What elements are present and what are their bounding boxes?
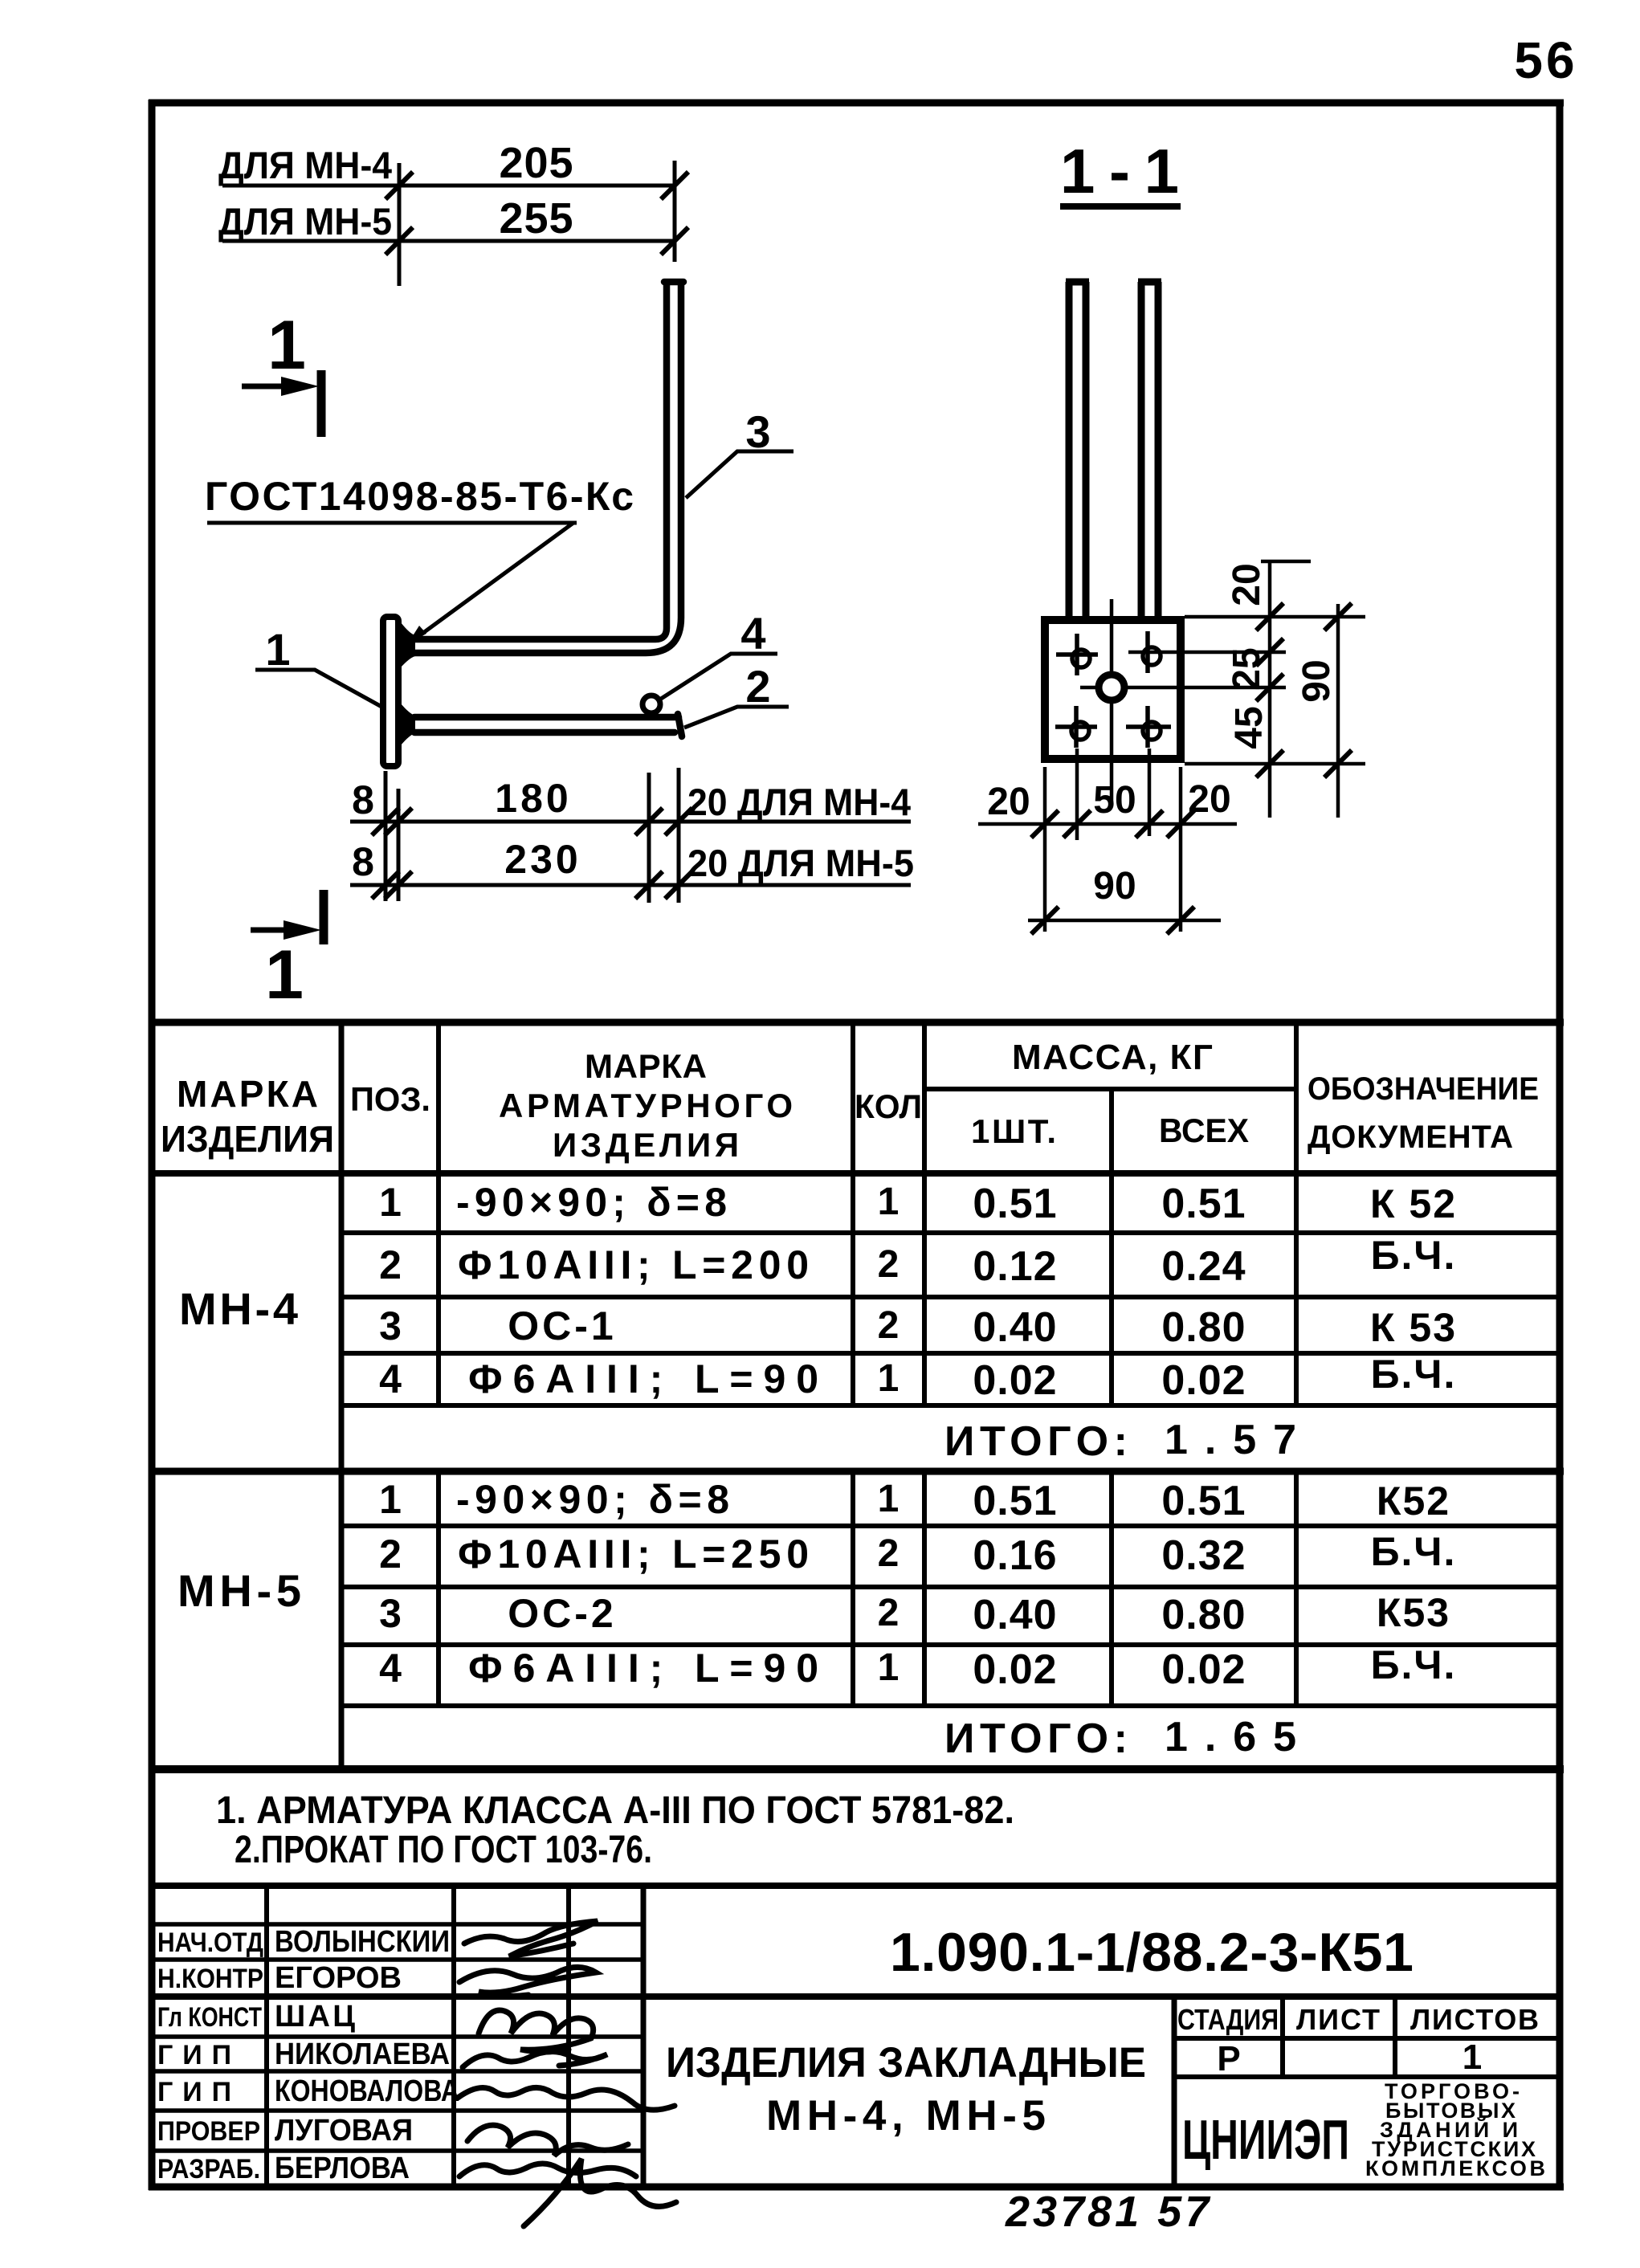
svg-text:ГИП: ГИП (157, 2077, 231, 2107)
svg-text:50: 50 (1093, 779, 1136, 822)
svg-text:180: 180 (495, 776, 571, 821)
svg-text:КОЛ: КОЛ (855, 1087, 922, 1125)
svg-text:0.40: 0.40 (973, 1592, 1057, 1638)
svg-text:ПРОВЕР: ПРОВЕР (157, 2116, 260, 2147)
svg-text:МН-5: МН-5 (177, 1565, 301, 1616)
svg-text:255: 255 (499, 194, 573, 243)
weld cross bottom-right (1126, 706, 1171, 748)
svg-text:-90×90; δ=8: -90×90; δ=8 (456, 1180, 727, 1225)
svg-text:1: 1 (878, 1181, 900, 1223)
svg-text:2: 2 (379, 1242, 402, 1287)
plate vertical centerline (1110, 599, 1114, 803)
svg-text:ИТОГО:: ИТОГО: (944, 1418, 1128, 1465)
svg-text:90: 90 (1295, 659, 1338, 702)
svg-text:1. АРМАТУРА КЛАССА А-III ПО ГО: 1. АРМАТУРА КЛАССА А-III ПО ГОСТ 5781-82… (216, 1789, 1014, 1832)
svg-text:56: 56 (1514, 31, 1577, 89)
svg-text:Б.Ч.: Б.Ч. (1371, 1529, 1457, 1574)
svg-text:ДЛЯ МН-5: ДЛЯ МН-5 (218, 200, 392, 243)
svg-text:20 ДЛЯ МН-5: 20 ДЛЯ МН-5 (687, 842, 914, 884)
svg-text:Б.Ч.: Б.Ч. (1371, 1233, 1457, 1278)
svg-text:2: 2 (745, 661, 770, 712)
dim ticks row1/row2 (372, 808, 399, 835)
svg-text:1: 1 (265, 624, 290, 675)
svg-text:ПОЗ.: ПОЗ. (350, 1080, 430, 1118)
svg-text:20 ДЛЯ МН-4: 20 ДЛЯ МН-4 (687, 781, 911, 823)
section: left bar (1066, 282, 1089, 618)
svg-text:20: 20 (987, 781, 1030, 823)
svg-text:230: 230 (504, 837, 581, 882)
svg-text:0.51: 0.51 (1161, 1478, 1246, 1524)
svg-text:0.40: 0.40 (973, 1304, 1057, 1351)
svg-text:МН-4: МН-4 (179, 1283, 298, 1334)
svg-text:К 53: К 53 (1370, 1305, 1457, 1350)
svg-text:20: 20 (1226, 563, 1268, 606)
svg-text:8: 8 (352, 777, 374, 822)
svg-text:2: 2 (878, 1592, 900, 1634)
svg-text:БЕРЛОВА: БЕРЛОВА (275, 2152, 410, 2185)
svg-text:ОС-2: ОС-2 (508, 1591, 616, 1636)
bottom dim ticks (1031, 810, 1059, 838)
svg-text:4: 4 (740, 608, 765, 659)
svg-text:0.51: 0.51 (1161, 1181, 1246, 1227)
svg-text:Р: Р (1217, 2039, 1240, 2078)
svg-text:Н.КОНТР: Н.КОНТР (157, 1964, 263, 1994)
svg-text:ОС-1: ОС-1 (508, 1303, 616, 1348)
svg-text:1: 1 (878, 1357, 900, 1400)
svg-text:Гл КОНСТ: Гл КОНСТ (157, 2002, 262, 2033)
dim ticks (386, 172, 413, 199)
svg-text:4: 4 (379, 1646, 402, 1691)
dim line 205 (222, 184, 675, 188)
svg-text:ЛУГОВАЯ: ЛУГОВАЯ (275, 2114, 413, 2148)
svg-text:ИЗДЕЛИЯ: ИЗДЕЛИЯ (553, 1126, 739, 1164)
svg-text:20: 20 (1188, 778, 1230, 821)
extension lines below front view (350, 768, 911, 903)
svg-text:3: 3 (379, 1591, 402, 1636)
svg-text:МАРКА: МАРКА (585, 1047, 707, 1085)
svg-text:ВОЛЫНСКИИ: ВОЛЫНСКИИ (275, 1925, 450, 1959)
svg-text:КОНОВАЛОВА: КОНОВАЛОВА (275, 2074, 459, 2108)
weld cross bottom-left (1055, 706, 1097, 748)
svg-text:23781 57: 23781 57 (1005, 2188, 1212, 2236)
svg-text:3: 3 (379, 1303, 402, 1348)
drawing frame (149, 100, 1564, 2190)
svg-text:0.51: 0.51 (973, 1478, 1057, 1524)
leader 3 (686, 406, 793, 498)
svg-text:ДЛЯ МН-4: ДЛЯ МН-4 (218, 144, 392, 186)
dim line 255 (222, 239, 675, 243)
weld cone bottom (401, 704, 415, 745)
svg-text:1: 1 (1463, 2038, 1482, 2077)
svg-text:0.51: 0.51 (973, 1181, 1057, 1227)
svg-text:2.ПРОКАТ ПО ГОСТ 103-76.: 2.ПРОКАТ ПО ГОСТ 103-76. (235, 1829, 652, 1871)
svg-text:ЦНИИЭП: ЦНИИЭП (1182, 2108, 1349, 2171)
svg-text:1: 1 (267, 307, 306, 384)
svg-text:ИЗДЕЛИЯ ЗАКЛАДНЫЕ: ИЗДЕЛИЯ ЗАКЛАДНЫЕ (666, 2039, 1146, 2086)
section: right bar (1138, 282, 1161, 618)
svg-text:ИЗДЕЛИЯ: ИЗДЕЛИЯ (161, 1118, 334, 1160)
svg-text:90: 90 (1093, 865, 1136, 908)
svg-text:45: 45 (1228, 706, 1271, 749)
leader 2 (684, 661, 789, 728)
svg-text:1-1: 1-1 (1060, 136, 1179, 206)
extension line right (673, 161, 677, 262)
svg-text:1ШТ.: 1ШТ. (971, 1112, 1056, 1150)
svg-text:ГОСТ14098-85-Т6-Кс: ГОСТ14098-85-Т6-Кс (205, 474, 634, 519)
svg-text:1: 1 (379, 1180, 402, 1225)
svg-text:ВСЕХ: ВСЕХ (1159, 1112, 1249, 1149)
svg-text:Б.Ч.: Б.Ч. (1371, 1642, 1457, 1687)
right dim ticks (1256, 603, 1283, 630)
leader 4 (661, 608, 777, 699)
right extension lines (1185, 561, 1365, 818)
leader to weld (414, 523, 573, 639)
svg-text:НАЧ.ОТД: НАЧ.ОТД (157, 1927, 263, 1958)
svg-text:4: 4 (379, 1356, 402, 1401)
svg-text:ШАЦ: ШАЦ (275, 2000, 355, 2033)
svg-text:МАССА, КГ: МАССА, КГ (1012, 1038, 1213, 1077)
svg-text:1: 1 (265, 936, 304, 1014)
svg-text:2: 2 (878, 1243, 900, 1286)
leader 1 (255, 624, 383, 708)
rod item 2 (straight, hollow) (414, 714, 682, 736)
title block grid (152, 1886, 1560, 2187)
svg-text:РАЗРАБ.: РАЗРАБ. (157, 2154, 260, 2184)
svg-text:ГИП: ГИП (157, 2040, 231, 2070)
svg-text:1: 1 (379, 1477, 402, 1522)
bottom extension lines (978, 749, 1237, 932)
svg-text:25: 25 (1226, 647, 1268, 690)
svg-text:СТАДИЯ: СТАДИЯ (1177, 2003, 1279, 2036)
svg-text:К52: К52 (1377, 1479, 1450, 1524)
svg-text:КОМПЛЕКСОВ: КОМПЛЕКСОВ (1365, 2156, 1545, 2180)
svg-text:ЕГОРОВ: ЕГОРОВ (275, 1961, 402, 1995)
svg-text:К 52: К 52 (1370, 1181, 1457, 1226)
svg-text:2: 2 (878, 1532, 900, 1575)
svg-text:1: 1 (878, 1646, 900, 1689)
svg-text:8: 8 (352, 839, 374, 884)
rod item 3 (L-shaped, hollow) (414, 282, 683, 653)
svg-text:2: 2 (379, 1532, 402, 1577)
svg-text:ЛИСТ: ЛИСТ (1296, 2003, 1380, 2036)
svg-text:ИТОГО:: ИТОГО: (944, 1715, 1128, 1762)
section marker 1 (top) (242, 307, 321, 437)
svg-text:НИКОЛАЕВА: НИКОЛАЕВА (275, 2038, 450, 2071)
svg-text:0.32: 0.32 (1161, 1532, 1246, 1579)
weld cross top-left (1056, 634, 1098, 675)
svg-text:К53: К53 (1377, 1590, 1450, 1635)
section marker 1 (bottom) (251, 890, 324, 1014)
svg-text:0.02: 0.02 (1161, 1646, 1246, 1693)
svg-text:МАРКА: МАРКА (177, 1073, 318, 1115)
svg-text:ОБОЗНАЧЕНИЕ: ОБОЗНАЧЕНИЕ (1308, 1071, 1539, 1107)
weld cone top (401, 622, 415, 667)
spec table grid (149, 1022, 1564, 1886)
svg-text:ДОКУМЕНТА: ДОКУМЕНТА (1308, 1120, 1513, 1155)
svg-text:0.80: 0.80 (1161, 1592, 1246, 1638)
svg-text:0.12: 0.12 (973, 1243, 1057, 1290)
svg-text:2: 2 (878, 1304, 900, 1347)
svg-text:1: 1 (878, 1478, 900, 1520)
svg-text:0.24: 0.24 (1161, 1243, 1246, 1290)
signatures (hand squiggles) (458, 1921, 676, 2226)
center hole circle + centerline (1080, 686, 1286, 690)
circle item 4 (bar section) (643, 695, 660, 713)
svg-text:Б.Ч.: Б.Ч. (1371, 1352, 1457, 1397)
svg-text:0.02: 0.02 (1161, 1357, 1246, 1404)
svg-text:0.80: 0.80 (1161, 1304, 1246, 1351)
svg-text:0.02: 0.02 (973, 1646, 1057, 1693)
svg-text:0.16: 0.16 (973, 1532, 1057, 1579)
section: plate 90x90 (1045, 620, 1181, 759)
extension line left (398, 163, 402, 286)
svg-text:0.02: 0.02 (973, 1357, 1057, 1404)
svg-text:205: 205 (499, 139, 573, 187)
svg-text:АРМАТУРНОГО: АРМАТУРНОГО (499, 1087, 793, 1124)
svg-text:1.090.1-1/88.2-3-К51: 1.090.1-1/88.2-3-К51 (890, 1922, 1414, 1983)
weld cross top-right (1128, 631, 1286, 673)
plate item 1 (front view) (383, 617, 398, 766)
